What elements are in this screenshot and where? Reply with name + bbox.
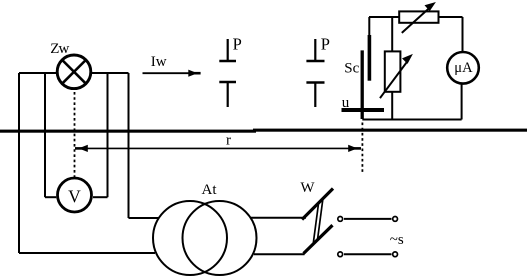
svg-text:P: P [321, 34, 330, 53]
svg-text:r: r [226, 133, 231, 149]
svg-text:~s: ~s [390, 232, 404, 248]
svg-text:At: At [202, 182, 218, 198]
svg-text:Zw: Zw [50, 41, 69, 57]
svg-text:μA: μA [454, 60, 473, 76]
svg-text:u: u [342, 95, 350, 111]
svg-text:Iw: Iw [151, 54, 167, 70]
svg-text:P: P [233, 34, 242, 53]
svg-text:W: W [300, 180, 315, 196]
svg-text:V: V [68, 187, 81, 207]
svg-text:Sc: Sc [344, 60, 359, 76]
